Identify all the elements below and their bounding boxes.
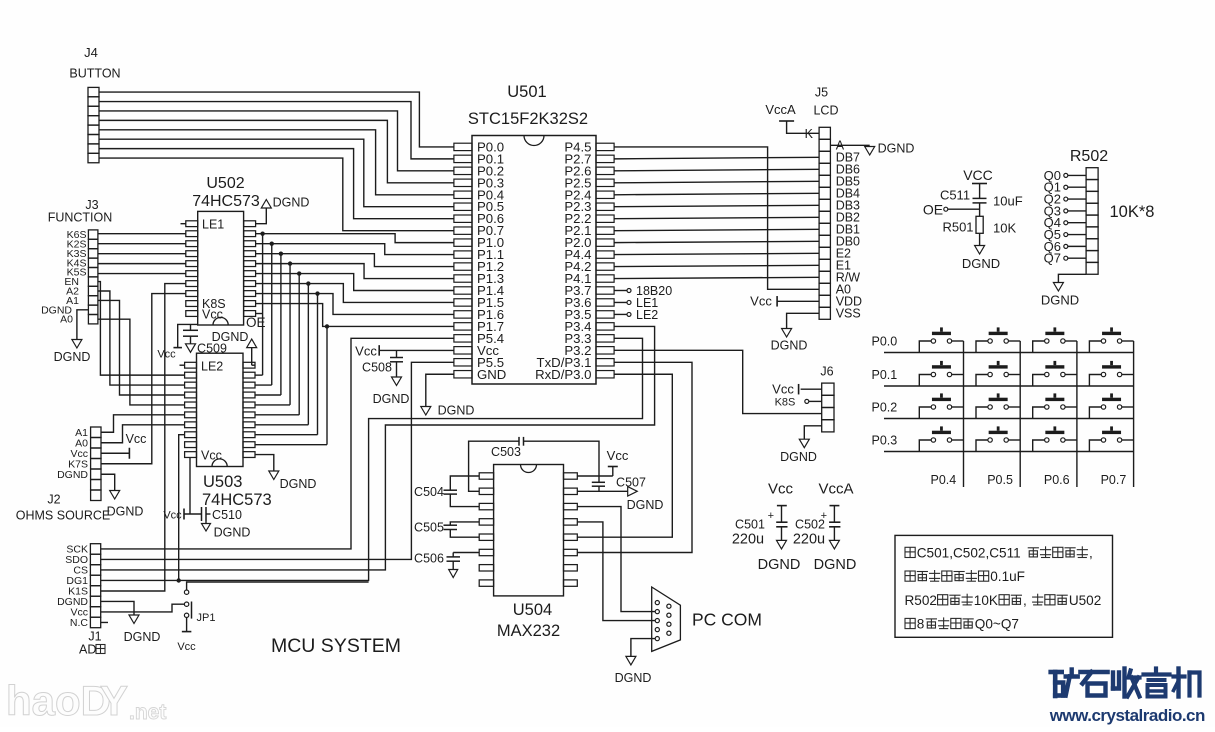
wire J3 K2S to U502 pin3: [98, 243, 186, 245]
wire U501 P3.2 to J6 pin3: [614, 350, 822, 413]
svg-text:P0.4: P0.4: [931, 473, 957, 487]
ground below C506: [449, 570, 458, 578]
svg-text:J2: J2: [47, 493, 60, 507]
svg-text:Vcc: Vcc: [177, 641, 196, 653]
svg-text:10K: 10K: [993, 221, 1016, 236]
wire U502 Q5 to U501 P1.5: [256, 284, 454, 303]
svg-text:MAX232: MAX232: [497, 622, 560, 640]
wire U503 pin8 to J1 DG1: [177, 435, 185, 583]
wire J3 A1 to U503 pin4: [98, 300, 185, 395]
svg-text:OE: OE: [923, 202, 943, 218]
wire bus Q6 junction to U503 pin8: [255, 291, 320, 434]
ground right of U503: [269, 471, 317, 491]
wire J2 K7S to U502 pin8: [101, 294, 186, 464]
svg-text:C511: C511: [940, 188, 970, 203]
wire DB9 shell to ground: [631, 639, 655, 657]
svg-text:Vcc: Vcc: [750, 294, 772, 309]
node Q7: [1044, 251, 1086, 266]
wire J3 A2 to U503 pin3: [98, 291, 185, 385]
ground below C508: [373, 377, 410, 406]
wire JP1 pin3 to Vcc: [177, 618, 196, 654]
wire U504 pin15 to ground right: [577, 487, 663, 512]
ground below DB9: [615, 656, 652, 685]
svg-text:J1: J1: [88, 630, 101, 644]
wire J6 pin4 to ground: [804, 426, 821, 439]
ground below R501: [962, 246, 1000, 272]
wire U501 Vcc pin to Vcc: [355, 344, 454, 359]
switch S31: [919, 393, 963, 418]
svg-text:VSS: VSS: [836, 307, 861, 321]
svg-text:PC COM: PC COM: [692, 610, 762, 630]
svg-text:P0.1: P0.1: [872, 368, 898, 382]
wire keypad column P0.5: [1019, 341, 1021, 487]
wire U504 pin12 to DB9: [577, 507, 655, 612]
svg-text:DGND: DGND: [615, 671, 652, 685]
svg-text:LE2: LE2: [201, 360, 223, 374]
svg-text:U503: U503: [203, 473, 242, 491]
switch S13: [1033, 327, 1077, 352]
svg-text:BUTTON: BUTTON: [69, 67, 120, 81]
svg-text:LCD: LCD: [813, 104, 838, 118]
connector J3 FUNCTION: [41, 198, 112, 326]
svg-text:VccA: VccA: [765, 102, 796, 117]
node LE2 at U501: [614, 308, 658, 322]
svg-text:Vcc: Vcc: [157, 349, 176, 361]
wire J4 pin4 to U501 P0.3: [99, 120, 454, 182]
switch S42: [976, 426, 1020, 451]
node Q3: [1044, 203, 1086, 218]
svg-text:LE1: LE1: [202, 217, 224, 231]
IC U503 74HC573 body: [185, 353, 272, 509]
svg-text:J5: J5: [815, 86, 828, 100]
wire J4 pin3 to U501 P0.2: [99, 111, 454, 171]
svg-text:N.C: N.C: [70, 617, 89, 629]
wire J4 pin2 to U501 P0.1: [99, 102, 454, 159]
svg-text:OHMS SOURCE: OHMS SOURCE: [16, 509, 110, 523]
svg-text:220u: 220u: [793, 532, 825, 548]
wire JP1 pin1 to DG1 net: [187, 582, 369, 590]
svg-text:Q7: Q7: [1044, 251, 1061, 266]
ground below C501: [758, 540, 801, 573]
svg-text:R501: R501: [942, 220, 973, 235]
ground below R502: [1041, 283, 1079, 308]
connector PC COM DB9: [652, 587, 762, 651]
connector J5 LCD: [805, 86, 862, 321]
wire U504 pin11 to DB9: [577, 522, 655, 621]
svg-text:Vcc: Vcc: [772, 382, 794, 397]
svg-text:OE: OE: [246, 315, 266, 330]
wire U502 Q2 to U501 P1.2: [256, 254, 454, 267]
wire U503 pin20 to ground: [255, 455, 274, 471]
wire J4 pin6 to U501 P0.5: [99, 139, 454, 207]
svg-text:+: +: [768, 510, 774, 522]
wire J3 K4S to U502 pin5: [98, 263, 186, 265]
svg-text:J4: J4: [84, 45, 98, 60]
wire U501 to J5 DB4: [614, 193, 819, 194]
wire J3 A0 to U503 pin5: [98, 319, 185, 405]
svg-text:C510: C510: [212, 508, 242, 522]
wire U502 Q1 to U501 P1.1: [256, 244, 454, 255]
wire J1 DG1 to U501 P3.3: [101, 338, 643, 580]
node Q0: [1044, 168, 1086, 183]
wire keypad column P0.6: [1076, 341, 1078, 487]
svg-text:P0.3: P0.3: [872, 434, 898, 448]
wire keypad column P0.7: [1133, 341, 1135, 487]
node Q6: [1044, 239, 1086, 254]
note text line2: [905, 571, 915, 581]
wire keypad row P0.3: [884, 451, 1134, 453]
svg-text:K8S: K8S: [775, 397, 796, 409]
wire U501 to J5 R/W: [614, 277, 819, 278]
svg-text:Vcc: Vcc: [163, 510, 182, 522]
switch S41: [919, 426, 963, 451]
power Vcc at J2: [101, 432, 146, 459]
svg-text:DGND: DGND: [373, 392, 410, 406]
svg-text:C501,C502,C511: C501,C502,C511: [917, 546, 1021, 561]
wire U503 LE2 left stub: [180, 364, 185, 366]
wire U502 Q4 to U501 P1.4: [256, 274, 454, 291]
svg-text:U504: U504: [513, 601, 552, 619]
wire U502 Q3 to U501 P1.3: [256, 264, 454, 279]
wire bus Q2 junction to U503 pin4: [255, 251, 283, 395]
wire J1 SDO to U501 P5.5: [101, 362, 454, 559]
wire J5 K to VccA: [765, 102, 819, 133]
wire U501 to J5 DB2: [614, 217, 819, 218]
node Q1: [1044, 180, 1086, 195]
wire J5 VSS to ground: [787, 313, 820, 328]
svg-text:MCU SYSTEM: MCU SYSTEM: [271, 635, 401, 657]
capacitor C509: [183, 324, 227, 355]
capacitor C503: [469, 437, 599, 491]
IC U502 74HC573 body: [186, 175, 260, 325]
svg-text:DGND: DGND: [273, 196, 310, 210]
capacitor C506: [414, 552, 479, 570]
svg-text:8: 8: [917, 617, 925, 632]
svg-text:DGND: DGND: [124, 630, 161, 644]
note text line1: [905, 547, 915, 557]
svg-text:Vcc: Vcc: [201, 449, 222, 463]
ground below C502: [814, 540, 857, 573]
watermark haoDIY.net: [6, 677, 166, 724]
svg-text:DGND: DGND: [212, 330, 249, 344]
wire U502 Q7 to U501 P1.7: [256, 304, 454, 327]
wire J3 K3S to U502 pin4: [98, 253, 186, 255]
wire J4 pin5 to U501 P0.4: [99, 130, 454, 195]
wire U501 to J5 DB1: [614, 229, 819, 230]
node Q5: [1044, 227, 1086, 242]
svg-text:DGND: DGND: [780, 450, 817, 464]
wire U501 P4.5 to J5 A0: [614, 147, 819, 289]
svg-text:DGND: DGND: [280, 477, 317, 491]
switch S34: [1089, 393, 1133, 418]
wire R502 common to ground: [1058, 274, 1086, 282]
ground below C510: [202, 521, 251, 540]
capacitor C507: [592, 476, 646, 492]
wire bus Q4 junction to U503 pin6: [255, 271, 301, 414]
wire J2 DGND to ground: [101, 474, 115, 490]
IC U504 MAX232 body: [479, 465, 577, 641]
svg-text:C505: C505: [414, 521, 444, 535]
wire U501 to J5 DB7: [614, 157, 819, 159]
svg-text:RxD/P3.0: RxD/P3.0: [535, 367, 591, 382]
svg-text:Y: Y: [100, 677, 128, 724]
svg-text:A0: A0: [60, 314, 73, 326]
svg-text:DGND: DGND: [54, 350, 91, 364]
ground J3 DGND: [54, 340, 91, 365]
node Q2: [1044, 192, 1086, 207]
wire U501 GND pin to ground: [426, 374, 454, 406]
wire U501 to J5 DB6: [614, 169, 819, 171]
svg-text:DGND: DGND: [771, 339, 808, 353]
svg-text:DGND: DGND: [1041, 293, 1079, 308]
svg-text:JP1: JP1: [197, 612, 216, 624]
svg-text:J6: J6: [820, 365, 833, 379]
wire J5 A to DGND: [830, 142, 914, 156]
wire bus Q5 junction to U503 pin7: [255, 281, 311, 424]
svg-text:STC15F2K32S2: STC15F2K32S2: [468, 110, 588, 128]
svg-text:C502: C502: [795, 518, 825, 532]
power Vcc at J6: [772, 382, 822, 397]
wire U501 to J5 DB0: [614, 241, 819, 242]
ground below U501 GND: [421, 404, 475, 418]
svg-text:10uF: 10uF: [993, 194, 1023, 209]
wire U501 to J5 DB5: [614, 181, 819, 182]
svg-text:U502: U502: [1069, 593, 1101, 608]
node 18B20 at U501: [614, 284, 672, 298]
svg-text:haoD: haoD: [6, 677, 111, 724]
wire bus Q1 junction to U503 pin3: [255, 241, 274, 385]
switch S44: [1089, 426, 1133, 451]
capacitor C502 220u: [793, 510, 841, 548]
svg-text:www.crystalradio.cn: www.crystalradio.cn: [1049, 706, 1205, 725]
power Vcc at C510: [163, 509, 184, 522]
svg-text:U501: U501: [507, 83, 546, 101]
svg-text:FUNCTION: FUNCTION: [48, 211, 113, 225]
switch S23: [1033, 361, 1077, 386]
svg-text:Vcc: Vcc: [355, 344, 377, 359]
wire J2 A0 to U503 pin7: [101, 425, 185, 443]
wire U502 Q0 to U501 P1.0: [256, 234, 454, 243]
svg-text:10K: 10K: [974, 593, 998, 608]
svg-text:,: ,: [1089, 546, 1093, 561]
svg-text:P0.6: P0.6: [1044, 473, 1070, 487]
wire J2 A1 to U503 pin6: [101, 415, 185, 432]
wire J1 DGND to ground: [101, 601, 134, 615]
power VCC above C511: [963, 167, 993, 198]
wire keypad row P0.0: [884, 352, 1134, 354]
svg-text:DGND: DGND: [814, 557, 857, 573]
ground below C509: [186, 344, 196, 353]
resistor network R502 10K*8: [1070, 148, 1155, 274]
capacitor C505: [414, 521, 479, 538]
wire U501 RxD to U504 pin13: [577, 374, 672, 537]
svg-text:U502: U502: [206, 175, 244, 192]
svg-text:C501: C501: [735, 518, 765, 532]
wire keypad row P0.2: [884, 418, 1134, 420]
switch S33: [1033, 393, 1077, 418]
switch S32: [976, 393, 1020, 418]
svg-text:C507: C507: [616, 476, 646, 490]
capacitor C510: [202, 507, 242, 522]
wire J3 K5S to U502 pin6: [98, 273, 186, 275]
svg-text:VccA: VccA: [818, 481, 853, 498]
power Vcc at J5 VDD: [750, 294, 819, 309]
svg-text:DGND: DGND: [878, 142, 915, 156]
wire U503 Vcc to C510: [184, 457, 202, 514]
switch S24: [1089, 361, 1133, 386]
ground below J5: [771, 329, 808, 353]
watermark crystalradio logo: [1051, 669, 1200, 697]
IC U501 STC15F2K32S2 body: [454, 83, 614, 384]
svg-text:C508: C508: [362, 361, 392, 375]
svg-text:C506: C506: [414, 552, 444, 566]
svg-text:AD: AD: [79, 643, 96, 657]
ground DGND above U502: [261, 196, 309, 210]
power VccA above C502: [818, 481, 853, 523]
jumper JP1: [184, 590, 215, 624]
power Vcc above C501: [768, 481, 794, 523]
svg-text:VCC: VCC: [963, 167, 993, 183]
wire U502 Vcc pin to Vcc rail: [178, 324, 198, 347]
ground DGND label above U503: [212, 330, 257, 348]
wire keypad row P0.1: [884, 385, 1134, 387]
svg-text:C503: C503: [491, 445, 521, 459]
svg-text:LE2: LE2: [636, 308, 658, 322]
node Q4: [1044, 215, 1086, 230]
svg-text:DGND: DGND: [438, 404, 475, 418]
switch S22: [976, 361, 1020, 386]
svg-text:Vcc: Vcc: [768, 481, 794, 498]
power Vcc at U504 pin16: [577, 448, 629, 476]
svg-text:74HC573: 74HC573: [202, 491, 272, 509]
node K8S at J6: [775, 397, 822, 409]
wire bus Q3 junction to U503 pin5: [255, 261, 292, 405]
svg-text:10K*8: 10K*8: [1110, 203, 1155, 221]
svg-text:R502: R502: [905, 593, 937, 608]
note text line4: [905, 618, 915, 628]
wire J1 CS to U501 P3.4: [101, 326, 655, 570]
svg-text:Q0~Q7: Q0~Q7: [975, 617, 1019, 632]
wire J4 pin1 to U501 P0.0: [99, 92, 454, 147]
switch S21: [919, 361, 963, 386]
wire J3 EN to U503 pin2: [98, 282, 185, 376]
wire J3 DGND pin to ground: [77, 310, 89, 340]
wire U501 TxD to U504 pin14: [577, 362, 692, 552]
svg-text:P0.7: P0.7: [1101, 473, 1127, 487]
wire J4 pin7 to U501 P0.6: [99, 149, 454, 219]
capacitor C501 220u: [732, 510, 788, 548]
wire J1 SCK to U501 P5.4: [101, 338, 454, 549]
ground below J1: [124, 615, 161, 644]
capacitor C504: [414, 476, 479, 507]
svg-text:Vcc: Vcc: [126, 432, 147, 446]
wire U502 LE1 stub: [181, 223, 186, 225]
wire bus Q0 junction to U503 pin2: [255, 231, 265, 375]
svg-text:DGND: DGND: [758, 557, 801, 573]
wire U501 to J5 E1: [614, 265, 819, 266]
svg-text:GND: GND: [477, 367, 506, 382]
svg-text:0.1uF: 0.1uF: [990, 569, 1025, 584]
svg-text:220u: 220u: [732, 532, 764, 548]
connector J4 BUTTON: [69, 45, 120, 163]
ground below J6: [780, 439, 817, 464]
node OE: [923, 202, 980, 218]
svg-text:74HC573: 74HC573: [192, 193, 260, 210]
svg-text:P0.0: P0.0: [872, 335, 898, 349]
note box: [895, 535, 1113, 637]
svg-text:R502: R502: [1070, 148, 1108, 165]
connector J1 AD board: [57, 544, 102, 644]
svg-text:P0.5: P0.5: [987, 473, 1013, 487]
svg-text:DGND: DGND: [57, 469, 88, 481]
svg-text:,: ,: [1023, 593, 1027, 608]
switch S12: [976, 327, 1020, 352]
svg-text:Vcc: Vcc: [202, 307, 223, 321]
ground below J2: [107, 491, 144, 519]
wire U502 OE stub: [256, 313, 263, 315]
switch S14: [1089, 327, 1133, 352]
wire U501 to J5 E2: [614, 253, 819, 254]
switch S43: [1033, 426, 1077, 451]
svg-text:DGND: DGND: [214, 526, 251, 540]
resistor R501 10K: [942, 216, 1016, 245]
wire U502 pin11 to DGND: [256, 208, 267, 224]
capacitor C508: [362, 350, 403, 377]
capacitor C511 10uF: [940, 188, 1023, 217]
svg-text:P0.2: P0.2: [872, 401, 898, 415]
node LE1 at U501: [614, 296, 658, 310]
wire J1 N.C stub: [101, 621, 108, 623]
svg-text:DGND: DGND: [962, 256, 1000, 271]
svg-text:DGND: DGND: [627, 498, 664, 512]
svg-text:C504: C504: [414, 485, 444, 499]
label AD board CJK: [96, 645, 105, 654]
svg-text:Vcc: Vcc: [607, 448, 629, 463]
connector J6: [820, 365, 834, 432]
wire U501 to J5 DB3: [614, 205, 819, 206]
svg-text:DGND: DGND: [107, 505, 144, 519]
wire J1 K1S to U502 pin7: [101, 284, 186, 591]
wire J3 K6S to U502 pin2: [98, 233, 186, 235]
switch S11: [919, 327, 963, 352]
wire J4 pin8 to U501 P0.7: [99, 158, 454, 231]
svg-text:.net: .net: [129, 701, 166, 724]
power Vcc at U502: [157, 348, 182, 361]
wire U502 Q6 to U501 P1.6: [256, 294, 454, 315]
wire J1 Vcc to JP1: [101, 604, 185, 612]
wire keypad column P0.4: [963, 341, 965, 487]
wire bus Q7 junction to U503 pin9: [255, 324, 329, 444]
wire U503 LE2 pin to DGND: [251, 348, 253, 366]
connector J2 OHMS SOURCE: [16, 427, 110, 523]
